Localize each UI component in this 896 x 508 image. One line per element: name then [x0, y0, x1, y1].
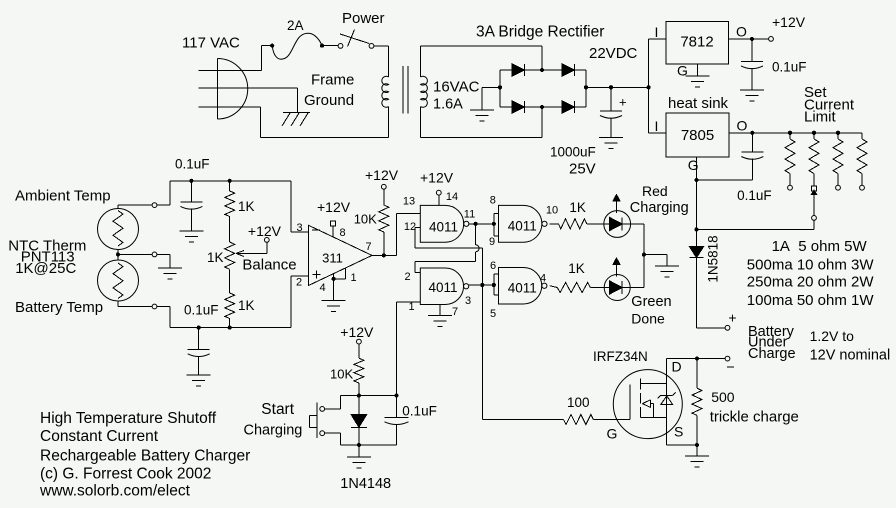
label Start Charging [244, 401, 303, 438]
resistor R7 10K start [354, 344, 364, 396]
mosfet drain-source chord [666, 359, 668, 445]
label 1K balance [207, 250, 224, 265]
capacitor C2 0.1uF at 7812 [741, 39, 763, 90]
pin 6 label [490, 260, 496, 272]
capacitor C6 0.1uF start [385, 396, 409, 445]
diode D8 1N4148 [351, 396, 367, 445]
node pin1 pin4 junction [332, 277, 336, 281]
terminal RT2 bottom [152, 304, 157, 309]
switch S1 Power [324, 30, 389, 49]
fuse F1 2A [270, 33, 324, 59]
svg-text:G: G [688, 157, 699, 173]
wire C3 return to ground pin [697, 179, 753, 181]
bridge frame [500, 70, 586, 107]
wire plug hot prong [199, 46, 270, 71]
node bridge AC left [498, 85, 502, 89]
wire RT mid to ground [157, 254, 170, 268]
wire 7812 input [649, 24, 667, 40]
ground at LEDs [655, 266, 679, 277]
node bottom rail cap [197, 326, 201, 330]
node 311 output [382, 253, 386, 257]
node limit rail R1 [788, 131, 792, 135]
label 100 [567, 395, 590, 410]
svg-text:Red: Red [642, 183, 668, 199]
svg-text:7805: 7805 [681, 127, 714, 144]
svg-text:2: 2 [404, 271, 410, 283]
pin 10 wire [546, 205, 559, 224]
label 0.1uF bottom [184, 303, 219, 318]
svg-text:O: O [736, 24, 747, 40]
thermistor RT1 ambient [98, 209, 139, 250]
label Frame Ground [304, 72, 354, 110]
pin 7 ground gateB [440, 305, 458, 318]
capacitor C4 0.1uF [180, 181, 202, 231]
wire 311 out to gateA [384, 213, 421, 255]
wire plug ground prong [199, 107, 261, 137]
wire RT2 to bottom rail [157, 307, 170, 328]
label title line1 [40, 410, 217, 427]
terminal battery minus [725, 356, 734, 367]
svg-text:3: 3 [465, 295, 471, 307]
svg-text:Charge: Charge [748, 346, 796, 362]
svg-text:trickle charge: trickle charge [710, 409, 799, 426]
node 7812 out junction [750, 37, 754, 41]
svg-text:10K: 10K [354, 212, 377, 227]
svg-text:Green: Green [631, 294, 671, 310]
svg-text:1.6A: 1.6A [433, 97, 463, 113]
label Green Done [631, 294, 671, 327]
ground at source [685, 445, 709, 467]
pot wiper [236, 238, 269, 257]
pushbutton SW2 start [310, 403, 325, 439]
svg-text:Charging: Charging [244, 422, 303, 438]
label resistor table [747, 238, 875, 309]
label 1.2V to 12V nominal [810, 328, 891, 364]
svg-text:117 VAC: 117 VAC [182, 35, 240, 52]
label heat sink [668, 95, 729, 112]
terminal RT1 top [152, 203, 157, 208]
wire limit select return [697, 228, 815, 230]
node bridge AC bottom [540, 105, 544, 109]
svg-text:4: 4 [319, 282, 325, 294]
wire latch gateA out down [476, 224, 480, 262]
svg-text:Ambient Temp: Ambient Temp [15, 188, 111, 205]
svg-text:O: O [737, 118, 748, 134]
gate U4b 4011 [420, 268, 468, 305]
svg-text:+: + [728, 310, 736, 326]
wire drain rail [667, 358, 725, 360]
wire RT1 top link [118, 205, 152, 208]
label Battery Temp [15, 299, 103, 316]
resistor R8 100 [564, 415, 631, 425]
label Power [342, 10, 385, 27]
mosfet gate bar [629, 385, 631, 420]
diode D5 1N5818 [690, 247, 704, 258]
resistor R-limit-3 20ohm [833, 133, 843, 190]
svg-text:1K: 1K [207, 250, 224, 265]
wire secondary top [421, 46, 542, 70]
label Red Charging [630, 183, 689, 216]
mosfet source stub [641, 417, 667, 419]
svg-text:1K: 1K [238, 199, 255, 214]
label +12V at pin14 [420, 170, 454, 186]
pin 4 wire [540, 272, 557, 287]
svg-text:100: 100 [567, 395, 590, 410]
ground at C4 [179, 231, 203, 242]
svg-text:I: I [655, 118, 659, 134]
svg-text:10: 10 [546, 205, 558, 217]
svg-text:1: 1 [408, 301, 414, 313]
svg-text:1K: 1K [569, 200, 586, 215]
label title line2 [40, 428, 159, 445]
node 7805 out cap junction [750, 131, 754, 135]
node thermistor midpoint [116, 252, 120, 256]
label 3A Bridge Rectifier [476, 24, 604, 41]
svg-text:311: 311 [322, 251, 343, 266]
svg-text:Start: Start [261, 401, 294, 418]
terminal +12V output [769, 37, 774, 42]
wire secondary bottom [421, 107, 542, 138]
LED D7 green [604, 258, 630, 301]
label 0.1uF at C2 [772, 60, 807, 75]
svg-text:4011: 4011 [508, 281, 537, 296]
svg-text:5: 5 [490, 308, 496, 320]
label 22VDC [589, 45, 638, 62]
pin 12 stub [404, 221, 420, 233]
transistor Q1 IRFZ34N body [613, 370, 682, 439]
wire bridge left to ground [482, 87, 500, 110]
label title line5 [39, 483, 191, 500]
capacitor C1 1000uF [600, 87, 627, 137]
svg-text:+12V: +12V [365, 167, 399, 183]
svg-text:25V: 25V [569, 161, 596, 178]
wire button top contact [325, 396, 341, 409]
svg-text:Charging: Charging [630, 200, 689, 216]
ground at gateB [428, 316, 452, 327]
label 1000uF 25V [550, 145, 596, 178]
pin 8 +12V terminal [331, 221, 346, 239]
svg-text:0.1uF: 0.1uF [184, 303, 219, 318]
resistor R-limit-2 10ohm [809, 133, 819, 186]
pin 3 wire [291, 222, 320, 234]
pin 1 wire gateB [397, 301, 421, 313]
wire 7805 input [649, 118, 667, 134]
wire top rail [170, 181, 291, 232]
capacitor C3 0.1uF at 7805 [741, 133, 763, 180]
wire start top rail [340, 395, 396, 397]
potentiometer R2 1K balance [225, 242, 235, 269]
svg-text:Battery Temp: Battery Temp [15, 299, 103, 316]
label 1N4148 [340, 476, 391, 492]
svg-text:1A 5 ohm 5W: 1A 5 ohm 5W [772, 238, 868, 255]
svg-text:250ma 20 ohm 2W: 250ma 20 ohm 2W [747, 274, 875, 291]
svg-text:Ground: Ground [304, 92, 354, 109]
svg-text:+12V: +12V [420, 170, 454, 186]
label 1K green [568, 261, 585, 276]
pin 2 label [404, 271, 410, 283]
svg-text:+12V: +12V [317, 199, 351, 215]
label +12V start [340, 324, 374, 340]
svg-text:16VAC: 16VAC [433, 79, 480, 96]
wire plug neutral prong [199, 88, 298, 113]
label +12V at pin8 [317, 199, 351, 215]
wire gate drive down [482, 285, 563, 420]
wire latch gateB out to pin12 [415, 228, 482, 286]
wire red LED cathode [631, 224, 644, 288]
node top rail 1K [228, 179, 232, 183]
diode D4 bridge bottom-right [562, 101, 575, 113]
svg-text:3: 3 [296, 222, 302, 234]
node start rail cap [394, 394, 398, 398]
node gateA output [464, 209, 478, 226]
resistor R4 10K pullup [379, 189, 389, 255]
pin 7805 ground [688, 157, 699, 180]
label +12V at balance [248, 223, 282, 239]
mosfet drain stub [641, 383, 667, 385]
svg-text:9: 9 [489, 236, 495, 248]
wire diode to battery plus [697, 258, 726, 328]
op-amp U1 311 [309, 225, 373, 285]
pin 9 label [489, 236, 495, 248]
wire DC rail 22VDC [586, 86, 649, 88]
pin 13 label [403, 196, 415, 208]
svg-text:7: 7 [452, 306, 458, 318]
ac plug P1 [218, 59, 248, 120]
svg-text:3A Bridge Rectifier: 3A Bridge Rectifier [476, 24, 604, 41]
thermistor RT2 battery [98, 260, 139, 301]
label G mosfet [607, 426, 618, 442]
svg-text:Limit: Limit [804, 109, 837, 126]
label 2A [287, 18, 304, 33]
svg-text:Balance: Balance [242, 256, 296, 273]
resistor R-limit-4 50ohm [857, 133, 867, 190]
node regulator riser junction [647, 85, 651, 89]
ground at bridge [470, 110, 494, 121]
wire gateA out to gateC [469, 223, 494, 225]
svg-text:0.1uF: 0.1uF [175, 157, 210, 172]
svg-text:2: 2 [296, 277, 302, 289]
svg-text:100ma 50 ohm 1W: 100ma 50 ohm 1W [747, 292, 875, 309]
svg-text:Power: Power [342, 10, 385, 27]
pin 7 output wire [365, 241, 383, 255]
wire RT1 top to rail [157, 181, 170, 205]
node top rail cap [189, 179, 193, 183]
svg-text:4: 4 [540, 272, 546, 284]
regulator U3 7805 [666, 113, 729, 157]
svg-text:heat sink: heat sink [668, 95, 729, 112]
diode D3 bridge bottom-left [512, 101, 525, 113]
label D [672, 358, 682, 374]
node limit rail R2 [812, 131, 816, 135]
svg-text:D: D [672, 358, 682, 374]
svg-text:I: I [655, 24, 659, 40]
pin 14 +12V [436, 190, 458, 205]
pin 8 label [490, 195, 496, 207]
svg-text:G: G [607, 426, 618, 442]
svg-text:8: 8 [339, 227, 345, 239]
svg-text:Constant Current: Constant Current [40, 428, 159, 445]
resistor R5 1K red [558, 219, 603, 229]
node gateB output [480, 283, 484, 287]
svg-text:7812: 7812 [680, 34, 713, 51]
diode D1 bridge top-left [512, 64, 525, 76]
label S [674, 424, 683, 440]
label Battery Under Charge [748, 324, 796, 362]
svg-text:0.1uF: 0.1uF [402, 404, 437, 419]
connector limit select plug [811, 186, 817, 229]
label 1K lower [238, 298, 255, 313]
svg-text:6: 6 [490, 260, 496, 272]
transformer T1 primary [382, 46, 389, 138]
gate U4c 4011 [499, 205, 548, 242]
wire source rail [667, 444, 697, 446]
svg-text:0.1uF: 0.1uF [737, 188, 772, 203]
svg-text:14: 14 [446, 191, 458, 203]
diode D2 bridge top-right [562, 64, 575, 76]
ground at C5 [187, 375, 211, 386]
capacitor C5 0.1uF [188, 328, 210, 375]
svg-text:13: 13 [403, 196, 415, 208]
node source ground junction [695, 443, 699, 447]
wire gateB pin1 riser [396, 302, 398, 396]
terminal RT mid [152, 252, 157, 257]
svg-text:+12V: +12V [340, 324, 374, 340]
wire primary bottom [260, 137, 388, 139]
node gateD input [492, 283, 496, 287]
mosfet body diode [658, 392, 676, 404]
gate U4d 4011 [499, 268, 547, 305]
wire G line down [696, 180, 698, 247]
svg-text:12V nominal: 12V nominal [810, 348, 891, 364]
svg-text:Frame: Frame [311, 72, 354, 89]
node limit rail R3 [836, 131, 840, 135]
node bridge DC out [584, 85, 588, 89]
svg-text:Rechargeable Battery Charger: Rechargeable Battery Charger [40, 448, 250, 465]
svg-text:+12V: +12V [248, 223, 282, 239]
node filter cap junction [609, 85, 613, 89]
label 0.1uF top [175, 157, 210, 172]
ground at C1 [599, 138, 623, 149]
svg-text:1000uF: 1000uF [550, 145, 596, 160]
svg-text:S: S [674, 424, 683, 440]
label title line4 [40, 466, 211, 483]
node LED ground junction [642, 253, 646, 257]
wire RT2 bottom link [118, 301, 152, 307]
resistor R-limit-1 5ohm [785, 133, 795, 190]
ground at RT mid [158, 268, 182, 279]
svg-text:1: 1 [350, 272, 356, 284]
regulator U2 7812 [666, 22, 728, 64]
svg-text:4011: 4011 [508, 219, 537, 234]
pin 7812 ground [677, 63, 697, 79]
gate C input tie [492, 213, 499, 236]
label 500 trickle charge [710, 389, 799, 426]
label 10K start [330, 367, 353, 382]
wire gateB out to gateD [469, 284, 494, 286]
pin 2 wire [291, 271, 321, 289]
resistor R6 1K green [557, 283, 604, 293]
gate D input tie [494, 274, 499, 295]
wire latch to gateB pin2 [415, 261, 476, 272]
ground at 311 [322, 301, 346, 312]
ground at C2 [740, 90, 764, 101]
svg-text:500ma 10 ohm 3W: 500ma 10 ohm 3W [747, 257, 875, 274]
resistor R1 1K upper [225, 181, 235, 242]
svg-text:8: 8 [490, 195, 496, 207]
pin 4 ground wire [319, 274, 333, 301]
node G line cap return [694, 178, 698, 182]
svg-text:1N4148: 1N4148 [340, 476, 391, 492]
label Balance [242, 256, 296, 273]
label title line3 [40, 448, 250, 465]
svg-text:4011: 4011 [429, 219, 458, 234]
svg-text:7: 7 [365, 241, 371, 253]
svg-text:12: 12 [404, 221, 416, 233]
node start rail 10K [357, 394, 361, 398]
label IRFZ34N [593, 349, 648, 364]
svg-text:1K: 1K [238, 298, 255, 313]
label 0.1uF at C3 [737, 188, 772, 203]
wire RT junction link [118, 250, 152, 261]
label 1K red [569, 200, 586, 215]
wire 7805 output rail [729, 118, 862, 134]
gate U4a 4011 [420, 205, 469, 242]
svg-text:1N5818: 1N5818 [706, 235, 721, 282]
svg-text:22VDC: 22VDC [589, 45, 638, 62]
svg-text:500: 500 [711, 389, 735, 405]
label 10K [354, 212, 377, 227]
wire LED junction to ground [644, 255, 667, 266]
label +12V at 10K [365, 167, 399, 183]
svg-text:0.1uF: 0.1uF [772, 60, 807, 75]
label 1N5818 [706, 235, 721, 282]
svg-text:+: + [619, 95, 627, 110]
resistor R9 500 trickle [692, 359, 702, 445]
pin 1 wire [334, 268, 357, 284]
svg-text:1K: 1K [568, 261, 585, 276]
pin 5 label [490, 308, 496, 320]
wire button bottom contact [325, 433, 359, 445]
label +12V at 7812 [772, 14, 806, 30]
node 117VAC label [182, 35, 240, 52]
wire cap bottom return [359, 444, 397, 446]
svg-text:High Temperature Shutoff: High Temperature Shutoff [40, 410, 217, 427]
terminal +12V start [357, 339, 362, 344]
label 0.1uF start [402, 404, 437, 419]
node start ground junction [357, 443, 361, 447]
svg-text:www.solorb.com/elect: www.solorb.com/elect [39, 483, 191, 500]
label Set Current Limit [804, 84, 855, 126]
terminal +12V at 10K [381, 184, 386, 189]
svg-text:11: 11 [464, 209, 475, 221]
node bridge AC top [540, 68, 544, 72]
wire bottom rail [170, 276, 291, 327]
svg-text:(c) G. Forrest Cook 2002: (c) G. Forrest Cook 2002 [40, 466, 211, 483]
ground at 7812 [685, 76, 709, 87]
svg-text:IRFZ34N: IRFZ34N [593, 349, 648, 364]
LED D6 red [604, 195, 631, 238]
svg-text:4011: 4011 [428, 280, 457, 295]
terminal battery plus [725, 310, 736, 331]
svg-text:+12V: +12V [772, 14, 806, 30]
mosfet channel [640, 379, 642, 418]
wire green LED cathode [630, 287, 644, 289]
ground at start [347, 445, 371, 468]
label 1K upper [238, 199, 255, 214]
label 16VAC 1.6A [433, 79, 480, 113]
transformer T1 core [403, 66, 408, 114]
svg-text:2A: 2A [287, 18, 304, 33]
